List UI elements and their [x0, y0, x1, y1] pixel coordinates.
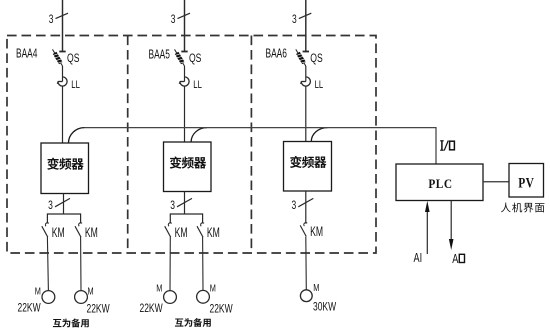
wire: PLC to PV — [483, 181, 509, 183]
motor M1 (feeder1 left) — [18, 285, 55, 314]
reactor LL feeder 2 — [179, 66, 202, 91]
svg-text:30KW: 30KW — [313, 301, 336, 314]
wire: KM left to motor feeder 2 — [169, 237, 171, 291]
motor M4 (feeder2 right) — [197, 282, 233, 315]
wire: signal bus to PLC I/O — [84, 128, 436, 164]
svg-text:PV: PV — [518, 174, 534, 191]
svg-text:A: A — [452, 253, 458, 267]
phase mark "3" below VFD 3 — [291, 198, 313, 212]
contactor KM feeder 3 — [300, 223, 323, 240]
wire: reactor to VFD feeder 3 — [305, 86, 307, 141]
label 互为备用 (mutual standby) feeder 1 — [53, 319, 89, 328]
svg-text:M: M — [156, 282, 162, 293]
wire: KM to motor feeder 3 — [305, 237, 308, 290]
switch-fuse QS feeder 3 — [296, 49, 323, 66]
VFD box 变频器 2 — [164, 142, 212, 192]
svg-text:3: 3 — [292, 14, 297, 27]
wire: reactor to VFD feeder 1 — [62, 86, 64, 143]
svg-text:KM: KM — [175, 226, 188, 240]
svg-text:M: M — [210, 282, 216, 293]
label 人机界面 (HMI) — [501, 203, 544, 213]
svg-text:QS: QS — [310, 52, 322, 66]
svg-text:M: M — [88, 285, 94, 296]
svg-text:M: M — [313, 282, 319, 293]
PLC controller U1 — [396, 164, 483, 201]
VFD box 变频器 1 — [41, 143, 89, 194]
svg-text:22KW: 22KW — [87, 303, 110, 316]
phase mark "3" on feeder 3 top — [292, 13, 311, 26]
contactor KM left branch feeder 2 — [165, 223, 188, 241]
wire: VFD 2 output down — [184, 192, 186, 215]
phase mark "3" below VFD 1 — [48, 198, 70, 212]
svg-text:PLC: PLC — [428, 177, 452, 190]
contactor KM right branch feeder 2 — [197, 223, 220, 241]
svg-text:3: 3 — [171, 14, 176, 27]
switch-fuse QS feeder 2 — [174, 49, 201, 66]
switch-fuse QS feeder 1 — [52, 49, 79, 66]
wire: incoming 3-phase line feeder 2 — [184, 0, 186, 51]
phase mark "3" below VFD 2 — [170, 198, 192, 212]
wire: VFD 3 output down — [305, 191, 307, 224]
wire: arc from VFD 3 top to signal bus — [311, 128, 327, 142]
svg-text:3: 3 — [48, 200, 53, 213]
wire: KM right to motor feeder 1 — [80, 237, 82, 291]
reactor LL feeder 3 — [301, 66, 324, 91]
svg-text:3: 3 — [170, 200, 175, 213]
wire: arc from VFD 2 top to signal bus — [191, 128, 207, 142]
svg-text:3: 3 — [291, 200, 296, 213]
motor M3 (feeder2 left) — [140, 282, 177, 315]
contactor KM right branch feeder 1 — [75, 223, 98, 241]
svg-text:BAA4: BAA4 — [16, 47, 37, 61]
svg-text:KM: KM — [310, 225, 323, 239]
contactor KM left branch feeder 1 — [42, 223, 65, 241]
phase mark "3" on feeder 2 top — [171, 13, 190, 26]
svg-text:QS: QS — [67, 52, 79, 66]
wire: VFD 1 output down — [63, 194, 65, 215]
svg-text:22KW: 22KW — [18, 302, 41, 315]
svg-text:KM: KM — [85, 226, 98, 240]
reactor LL feeder 1 — [57, 66, 80, 91]
wire: reactor to VFD feeder 2 — [184, 86, 186, 142]
cabinet dashed enclosure (3 sections) — [7, 36, 376, 254]
svg-text:QS: QS — [189, 52, 201, 66]
label I/O — [440, 141, 454, 151]
wire: T-split bar feeder 1 — [47, 214, 80, 223]
wire: incoming 3-phase line feeder 1 — [62, 0, 64, 51]
svg-text:22KW: 22KW — [209, 303, 232, 316]
svg-text:KM: KM — [207, 226, 220, 240]
signal AI analog input arrow — [413, 201, 429, 266]
svg-text:LL: LL — [71, 79, 80, 92]
svg-text:KM: KM — [52, 226, 65, 240]
wire: arc from VFD 1 top to signal bus — [69, 128, 85, 143]
svg-text:BAA5: BAA5 — [148, 48, 169, 62]
HMI panel PV — [509, 164, 544, 198]
phase mark "3" on feeder 1 top — [49, 13, 68, 26]
label 互为备用 (mutual standby) feeder 2 — [175, 318, 211, 327]
svg-text:LL: LL — [315, 79, 324, 92]
VFD box 变频器 3 — [284, 142, 332, 192]
wire: KM right to motor feeder 2 — [202, 237, 204, 291]
svg-text:3: 3 — [49, 14, 54, 27]
signal AO analog output arrow — [449, 201, 465, 267]
svg-text:LL: LL — [193, 79, 202, 92]
motor M2 (feeder1 right) — [75, 285, 110, 315]
wire: incoming 3-phase line feeder 3 — [305, 0, 307, 51]
svg-text:AI: AI — [413, 252, 422, 266]
motor M5 (feeder3) — [300, 282, 336, 314]
svg-text:M: M — [35, 285, 41, 296]
svg-text:22KW: 22KW — [140, 303, 163, 316]
svg-text:BAA6: BAA6 — [266, 47, 287, 61]
wire: T-split bar feeder 2 — [170, 214, 202, 223]
wire: KM left to motor feeder 1 — [47, 237, 48, 291]
